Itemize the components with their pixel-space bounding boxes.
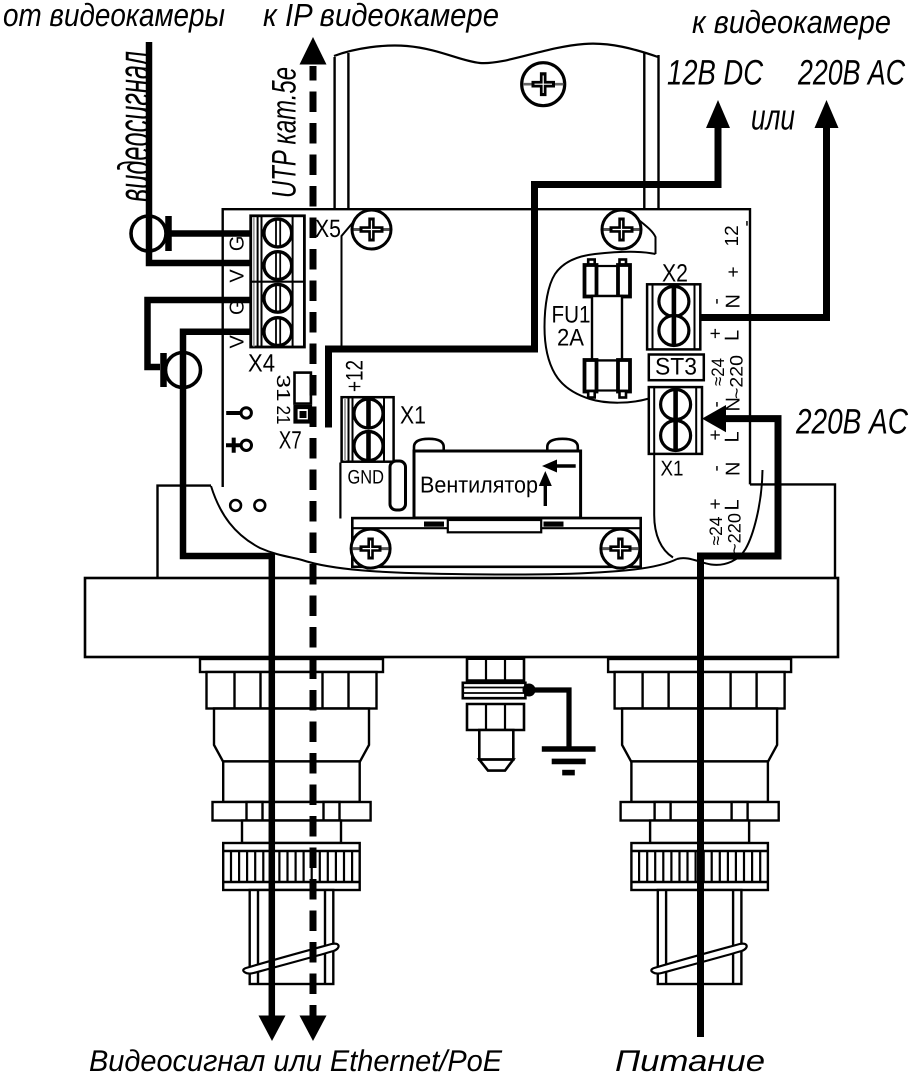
mounting hole 1 (230, 500, 241, 511)
ground wire (529, 690, 569, 749)
ground symbol (542, 746, 596, 752)
svg-text:X5: X5 (315, 215, 341, 243)
svg-text:ST3: ST3 (655, 354, 697, 381)
svg-text:L: L (722, 330, 744, 341)
heatsink bar under fan (352, 518, 640, 567)
mounting hole 2 (254, 500, 265, 511)
GND panel edge (339, 463, 341, 519)
svg-text:GND: GND (348, 467, 385, 489)
svg-text:к видеокамере: к видеокамере (692, 4, 891, 40)
svg-text:или: или (751, 97, 795, 138)
fuse FU1 (585, 260, 631, 398)
cable gland right (608, 659, 791, 984)
svg-text:G: G (227, 236, 249, 252)
torn edge right piece (677, 470, 763, 565)
grounding bolt (463, 659, 526, 771)
arrowhead at X1 (702, 405, 726, 432)
svg-text:N: N (723, 294, 745, 308)
svg-text:12: 12 (722, 225, 743, 246)
svg-text:к IP видеокамере: к IP видеокамере (263, 0, 499, 33)
housing base step left (158, 486, 212, 578)
svg-text:31: 31 (272, 375, 293, 402)
housing torn top wavy edge (334, 44, 658, 63)
terminal block X2 (647, 284, 700, 349)
wire 12V from X1 to 12V DC arrow (329, 112, 719, 428)
svg-text:UTP кат.5е: UTP кат.5е (265, 67, 304, 198)
mounting plate (85, 578, 838, 657)
BNC1 shield bar (165, 216, 172, 251)
svg-text:L: L (722, 431, 744, 442)
svg-text:12В DC: 12В DC (667, 53, 763, 93)
wire BNC1 shield to G (169, 230, 251, 237)
terminal block X1 fan power (342, 397, 394, 462)
torn bottom edge of housing (211, 486, 677, 575)
jumper X7 (295, 373, 311, 422)
coax wire from camera (149, 42, 250, 263)
wire X4 G to BNC2 shield (148, 300, 251, 367)
svg-text:2A: 2A (557, 325, 584, 352)
dashed UTP line (310, 66, 317, 1016)
test point minus (226, 411, 240, 415)
housing wall left double line (335, 53, 349, 209)
svg-text:+: + (724, 266, 745, 277)
screw PCB top-right with pennant (602, 210, 656, 254)
dashed UTP arrow down (300, 1016, 327, 1042)
svg-text:L: L (722, 499, 744, 510)
svg-text:от видеокамеры: от видеокамеры (3, 0, 225, 33)
BNC connector 2 (166, 353, 201, 388)
svg-text:X1: X1 (661, 457, 684, 481)
PCB outline (223, 209, 750, 487)
svg-text:X2: X2 (662, 260, 688, 288)
screw bottom-right (601, 529, 640, 568)
svg-text:≈24: ≈24 (708, 358, 728, 386)
wire X4 V through BNC2 to gland (183, 332, 272, 1017)
terminal block X1 lower (649, 387, 702, 454)
svg-text:220В AC: 220В AC (795, 402, 908, 442)
knurled nut lines left (231, 852, 352, 882)
svg-text:Вентилятор: Вентилятор (420, 472, 538, 498)
svg-text:X1: X1 (400, 402, 426, 430)
cable gland left (200, 659, 383, 984)
torn edge under X1 block (654, 454, 673, 558)
screw on housing top (522, 63, 565, 106)
svg-text:21: 21 (272, 406, 293, 425)
svg-text:V: V (227, 334, 249, 348)
ground junction dot (523, 684, 536, 697)
svg-text:X4: X4 (248, 350, 275, 378)
housing wall right double line (644, 53, 658, 209)
housing base step right (750, 484, 835, 578)
spiral cable wrap right (651, 944, 746, 974)
BNC connector 1 (131, 216, 166, 251)
arrowhead 220V AC (815, 100, 839, 128)
arrowhead video out (259, 1016, 286, 1042)
power cable through right gland (697, 578, 704, 1037)
arrowhead 12V DC (706, 100, 730, 128)
BNC2 shield bar (160, 353, 167, 387)
small rounded component (390, 461, 406, 510)
svg-text:Питание: Питание (615, 1045, 765, 1078)
svg-text:220В AC: 220В AC (797, 53, 905, 93)
spiral cable wrap left (243, 944, 338, 974)
screw PCB top-left with tail (342, 210, 392, 346)
svg-text:X7: X7 (279, 427, 302, 455)
svg-text:+12: +12 (342, 360, 369, 392)
FU1 torn cutout curve (545, 252, 656, 403)
dashed UTP arrow up (300, 37, 327, 65)
svg-text:N: N (723, 462, 745, 476)
svg-text:~220: ~220 (725, 513, 745, 554)
wire 220V AC lower from right gland to X1 (701, 419, 779, 578)
wire X2 to 220V AC top arrow (700, 112, 827, 318)
screw bottom-left (351, 529, 390, 568)
svg-text:Видеосигнал или Ethernet/PoE: Видеосигнал или Ethernet/PoE (89, 1045, 503, 1078)
terminal block X5/X4 (251, 216, 305, 347)
svg-text:≈24: ≈24 (706, 517, 726, 546)
svg-text:~220: ~220 (727, 355, 747, 399)
fan assembly (414, 439, 581, 518)
box ST3 (649, 355, 704, 381)
knurled nut lines right (639, 852, 760, 882)
svg-text:V: V (227, 269, 249, 283)
test point plus (226, 438, 241, 453)
